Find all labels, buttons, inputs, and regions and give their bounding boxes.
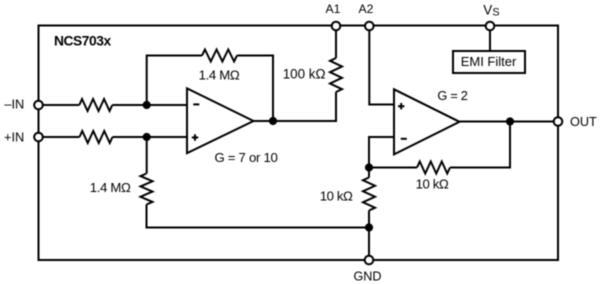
svg-text:OUT: OUT [570, 115, 597, 129]
svg-text:G = 7 or 10: G = 7 or 10 [214, 150, 277, 165]
svg-text:+IN: +IN [4, 130, 24, 145]
svg-text:10 kΩ: 10 kΩ [416, 177, 449, 192]
svg-text:VS: VS [483, 2, 499, 18]
svg-text:1.4 MΩ: 1.4 MΩ [90, 180, 131, 195]
svg-text:–IN: –IN [4, 96, 24, 111]
svg-text:NCS703x: NCS703x [54, 33, 111, 48]
svg-text:GND: GND [354, 269, 382, 283]
svg-text:10 kΩ: 10 kΩ [320, 188, 353, 203]
svg-text:EMI Filter: EMI Filter [461, 54, 517, 69]
svg-text:100 kΩ: 100 kΩ [283, 67, 326, 82]
svg-text:1.4 MΩ: 1.4 MΩ [199, 68, 240, 83]
svg-text:A1: A1 [326, 2, 341, 16]
svg-text:A2: A2 [359, 2, 374, 16]
svg-text:G = 2: G = 2 [437, 88, 467, 103]
